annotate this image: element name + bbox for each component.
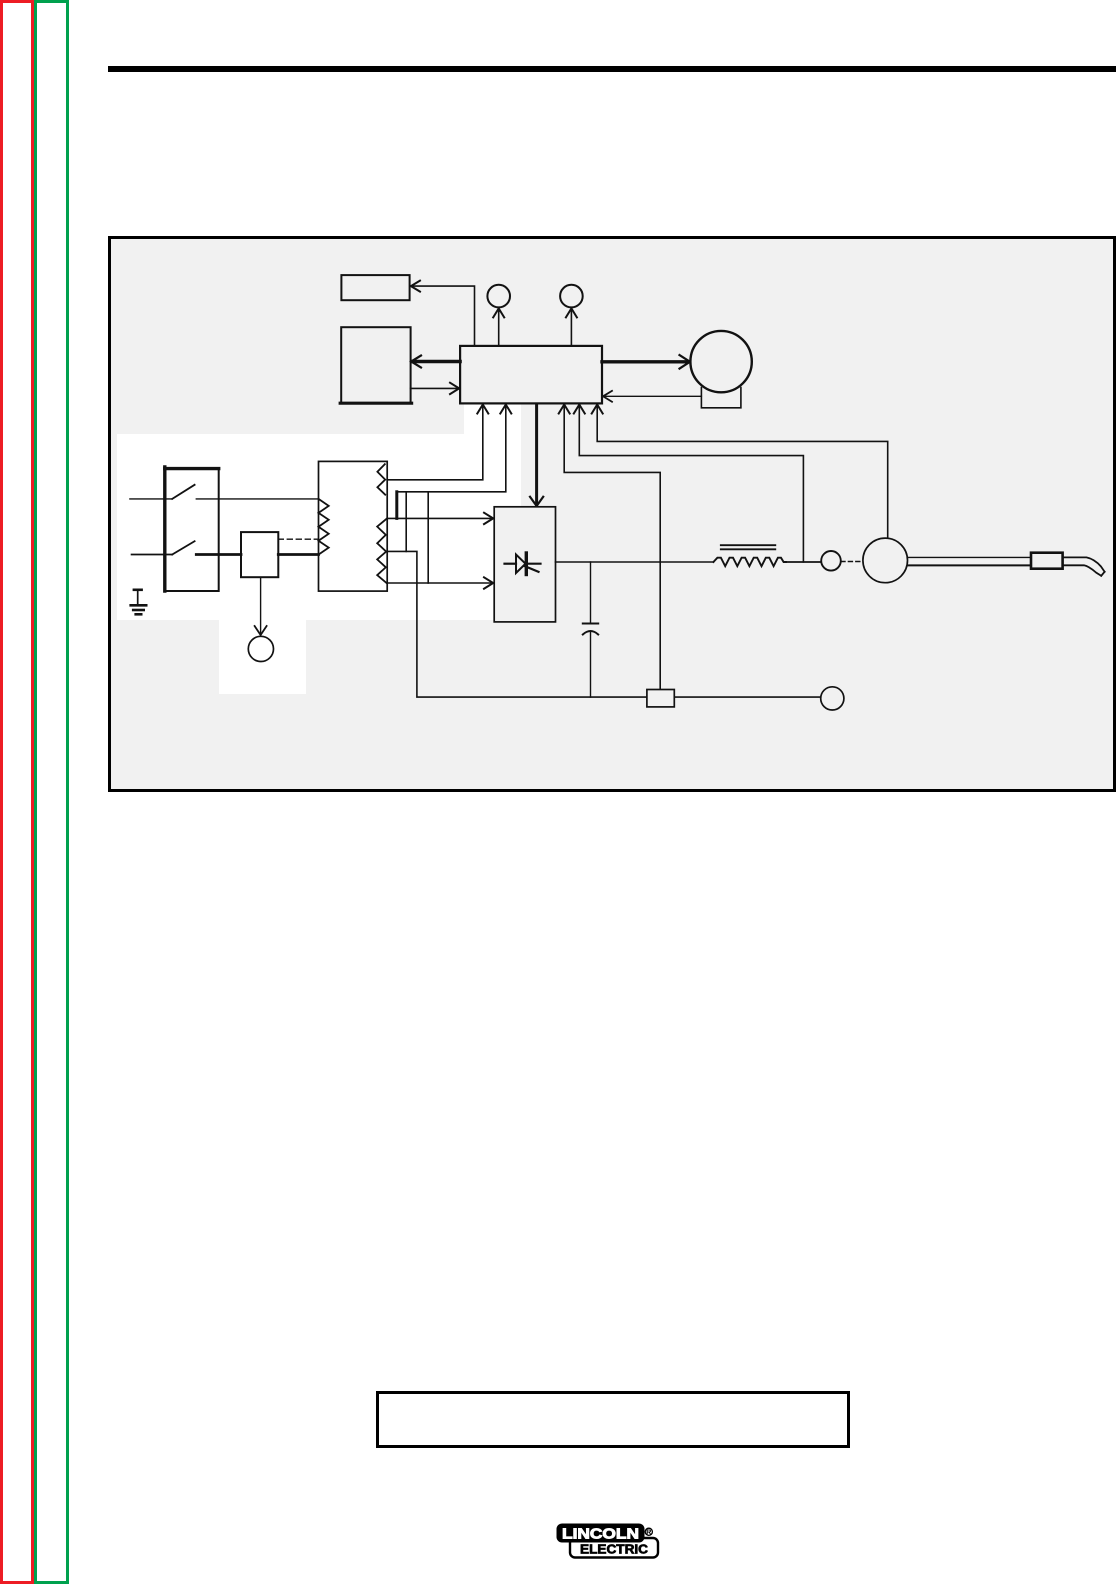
svg-text:R: R [646, 1527, 652, 1536]
svg-text:LINCOLN: LINCOLN [562, 1527, 639, 1543]
svg-text:ELECTRIC: ELECTRIC [580, 1542, 648, 1556]
